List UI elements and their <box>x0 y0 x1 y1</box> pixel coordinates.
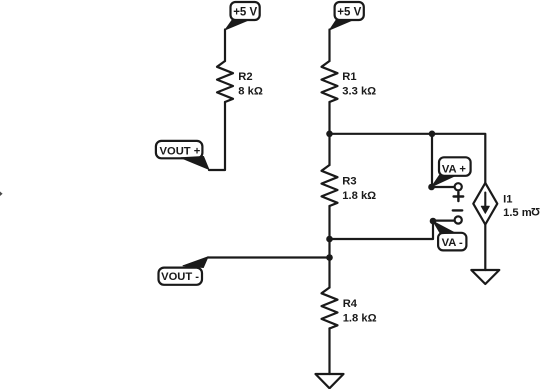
svg-text:Ω: Ω <box>531 205 540 217</box>
svg-text:3.3 kΩ: 3.3 kΩ <box>342 86 376 98</box>
svg-text:R2: R2 <box>238 71 252 83</box>
svg-text:VA +: VA + <box>442 164 466 176</box>
svg-text:VOUT +: VOUT + <box>160 145 201 157</box>
svg-text:+5 V: +5 V <box>233 6 257 18</box>
svg-text:VA -: VA - <box>442 237 463 249</box>
svg-text:R4: R4 <box>343 298 358 310</box>
svg-text:8 kΩ: 8 kΩ <box>238 86 263 98</box>
svg-text:+5 V: +5 V <box>337 6 361 18</box>
svg-text:VOUT -: VOUT - <box>161 271 199 283</box>
svg-text:R3: R3 <box>342 176 356 188</box>
svg-text:1.8 kΩ: 1.8 kΩ <box>343 313 377 325</box>
svg-text:1.8 kΩ: 1.8 kΩ <box>342 190 376 202</box>
svg-text:R1: R1 <box>342 71 356 83</box>
svg-text:I1: I1 <box>503 194 512 206</box>
svg-text:1.5 m: 1.5 m <box>503 207 532 219</box>
